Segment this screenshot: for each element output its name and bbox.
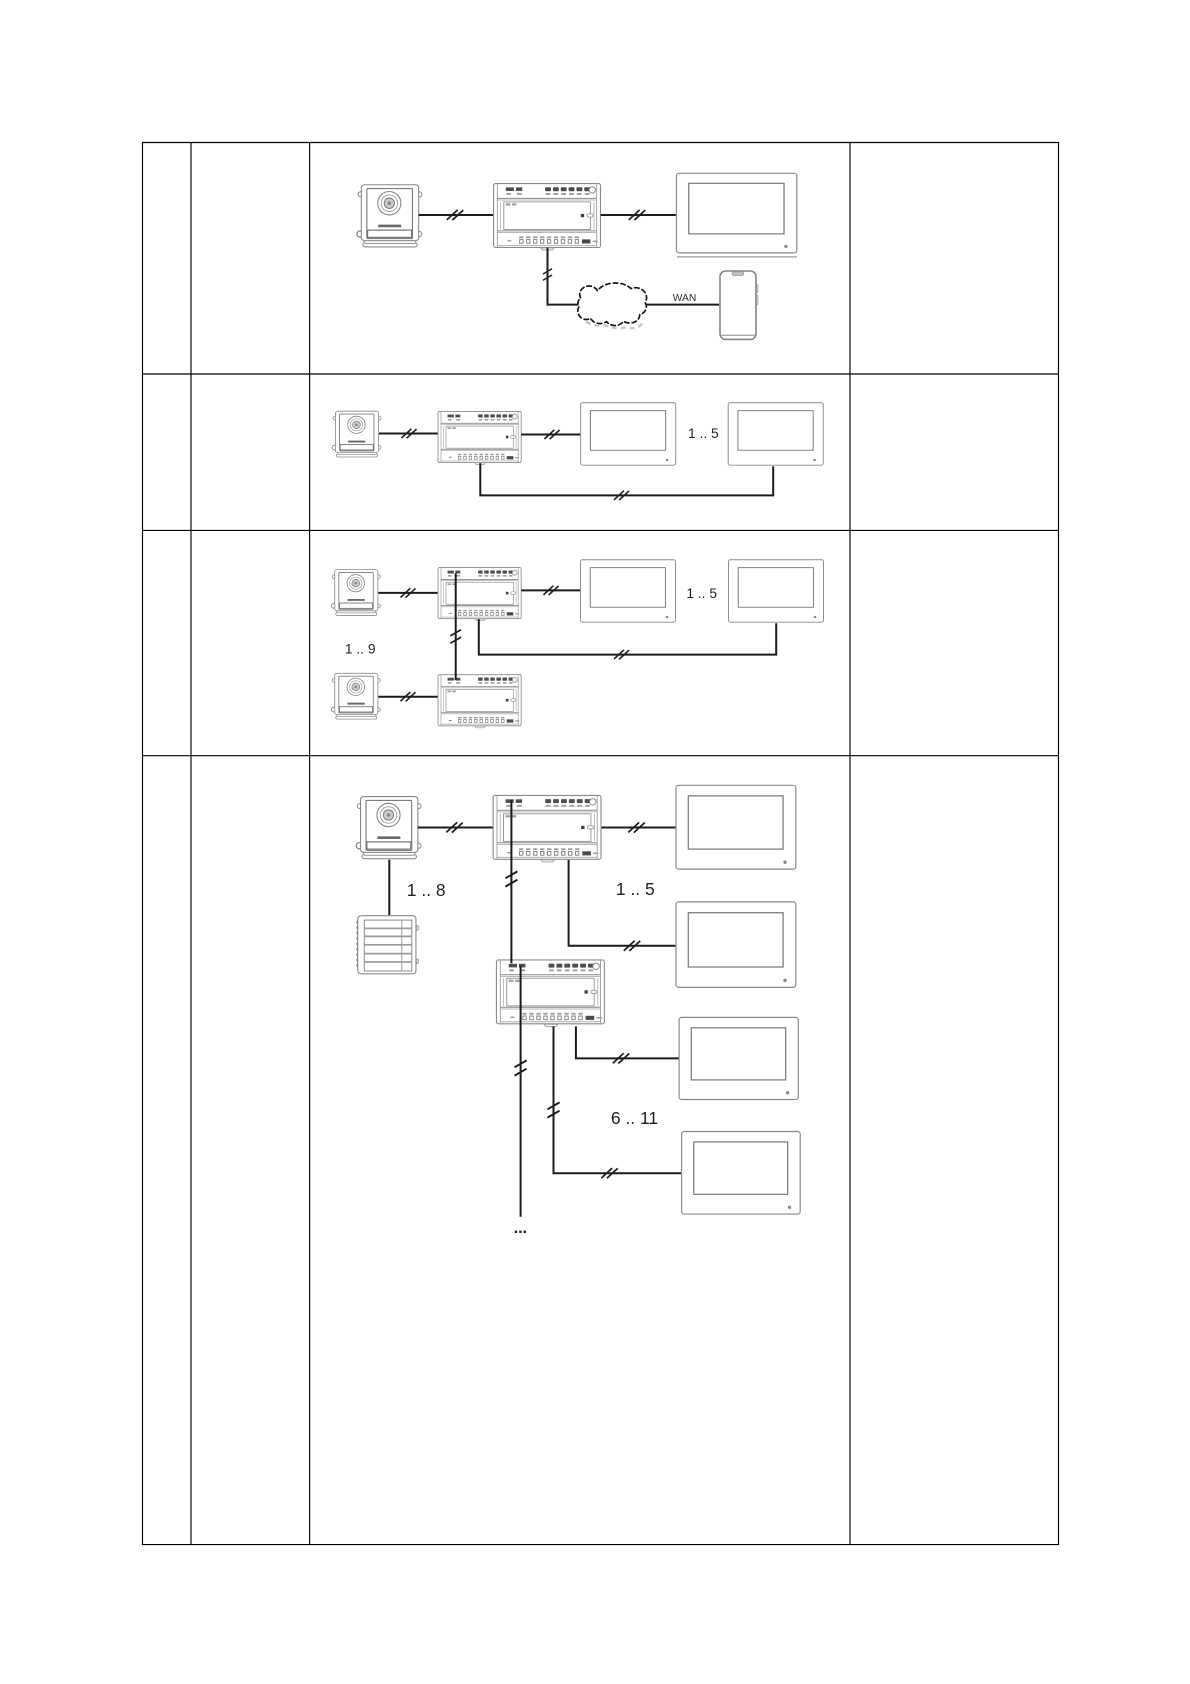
monitor row4 a bbox=[676, 785, 796, 869]
svg-text:1 .. 5: 1 .. 5 bbox=[686, 586, 717, 601]
cable mark row3 d bbox=[614, 650, 629, 659]
cable mark row1 a bbox=[447, 210, 463, 220]
wire controller-monitor2 row2 bbox=[480, 463, 773, 495]
monitor row2 b bbox=[728, 403, 823, 465]
cable mark row4 g bbox=[601, 1168, 617, 1178]
wire controller2-monitor3 row4 bbox=[576, 1026, 679, 1058]
monitor row3 a bbox=[580, 560, 675, 622]
monitor row2 a bbox=[581, 403, 676, 465]
wire controller-monitor row3 bbox=[521, 589, 580, 591]
cloud shadow bbox=[586, 322, 643, 328]
monitor row4 b bbox=[676, 902, 796, 987]
monitor row1 base line bbox=[677, 256, 797, 258]
cable mark row1 c bbox=[543, 269, 552, 281]
cable mark row4 f bbox=[547, 1102, 559, 1117]
controller row4 b bbox=[496, 960, 604, 1026]
controller row2 bbox=[438, 411, 521, 464]
wire controller2-monitor4 row4 bbox=[554, 1026, 682, 1173]
wire door-controller row3 a bbox=[378, 592, 437, 594]
wire door-controller row4 bbox=[418, 827, 493, 829]
cable mark row4 e bbox=[515, 1060, 527, 1075]
wire controller-controller row4 bbox=[510, 800, 512, 963]
wire door-keypad row4 bbox=[388, 860, 390, 915]
svg-text:1 .. 5: 1 .. 5 bbox=[616, 879, 655, 899]
cable mark row4 d bbox=[624, 941, 640, 951]
cable mark row2 b bbox=[544, 430, 559, 439]
table grid bbox=[142, 142, 1059, 1545]
label ellipsis row4 bbox=[515, 1231, 526, 1233]
wire controller-monitor2 row3 bbox=[479, 619, 776, 654]
door station row1 bbox=[357, 185, 422, 247]
wire controller-cloud row1 bbox=[548, 248, 601, 305]
wire door-controller row1 bbox=[419, 214, 493, 216]
monitor row4 d bbox=[682, 1131, 801, 1214]
svg-text:1 .. 8: 1 .. 8 bbox=[407, 880, 446, 900]
door station row2 bbox=[332, 411, 381, 457]
wire controller-monitor row1 bbox=[601, 214, 676, 216]
cable mark row1 b bbox=[629, 210, 645, 220]
wire controller-monitor2 row4 bbox=[569, 860, 676, 946]
wire door-controller row2 bbox=[379, 433, 438, 435]
monitor row4 c bbox=[679, 1017, 798, 1099]
controller row3 b bbox=[438, 675, 521, 728]
cable mark row4 b bbox=[628, 822, 644, 832]
keypad module row4 bbox=[357, 916, 418, 974]
controller row3 a bbox=[438, 568, 521, 621]
cable mark row4 c bbox=[505, 871, 517, 886]
wire controller-monitor row2 bbox=[521, 434, 580, 436]
wire cloud-phone row1 bbox=[640, 304, 719, 306]
cable mark row3 b bbox=[543, 586, 558, 595]
door station row4 bbox=[356, 797, 421, 859]
door station row3 a bbox=[331, 570, 380, 616]
cable mark row2 a bbox=[401, 429, 416, 438]
svg-text:1 .. 9: 1 .. 9 bbox=[345, 642, 376, 657]
door station row3 b bbox=[331, 673, 380, 719]
monitor row3 b bbox=[728, 560, 823, 622]
svg-text:6 .. 11: 6 .. 11 bbox=[611, 1108, 658, 1128]
cloud bbox=[578, 283, 647, 325]
cable mark row2 c bbox=[614, 491, 629, 500]
cable mark row4 h bbox=[613, 1053, 629, 1063]
cable mark row4 a bbox=[446, 822, 462, 832]
controller row4 a bbox=[493, 795, 601, 861]
wire riser row4 bbox=[520, 966, 522, 1217]
wire door-controller row3 b bbox=[378, 696, 437, 698]
cable mark row3 a bbox=[400, 588, 415, 597]
wire controller-controller row3 bbox=[455, 573, 457, 680]
monitor row1 bbox=[676, 173, 796, 253]
phone row1 bbox=[720, 271, 758, 339]
controller row1 bbox=[494, 184, 601, 250]
svg-text:1 .. 5: 1 .. 5 bbox=[688, 426, 719, 441]
svg-text:WAN: WAN bbox=[673, 293, 697, 304]
wire controller-monitor row4 bbox=[602, 827, 676, 829]
cable mark row3 c bbox=[450, 630, 461, 644]
cable mark row3 e bbox=[400, 692, 415, 701]
